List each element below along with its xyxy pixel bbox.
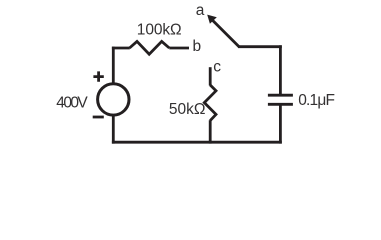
capacitor C1 top plate	[268, 94, 293, 97]
svg-text:50kΩ: 50kΩ	[169, 101, 206, 118]
svg-text:a: a	[196, 2, 205, 19]
svg-text:b: b	[193, 38, 202, 55]
svg-text:0.1μF: 0.1μF	[298, 92, 334, 109]
plus polarity mark	[93, 71, 103, 81]
wire: 50k lower lead	[209, 120, 212, 143]
wire: bottom return	[112, 141, 282, 144]
switch arm SW1 (blade toward a)	[212, 20, 239, 47]
capacitor C1 bottom plate	[268, 103, 293, 106]
wire: top left horizontal	[112, 47, 130, 50]
svg-text:400V: 400V	[56, 94, 88, 111]
resistor 100kΩ	[130, 41, 170, 54]
wire: left vertical branch	[112, 47, 115, 144]
wire: right vertical upper	[279, 45, 282, 95]
svg-text:c: c	[213, 58, 221, 75]
wire: to switch terminal b	[169, 47, 189, 50]
svg-text:100kΩ: 100kΩ	[137, 22, 182, 39]
wire: c terminal lead	[209, 67, 212, 85]
resistor 50kΩ	[204, 85, 216, 121]
switch arrowhead	[207, 15, 217, 24]
wire: right vertical lower	[279, 104, 282, 143]
wire: switch pivot to right branch	[238, 45, 282, 48]
voltage source V1 400V	[98, 84, 129, 115]
minus polarity mark	[93, 116, 104, 119]
